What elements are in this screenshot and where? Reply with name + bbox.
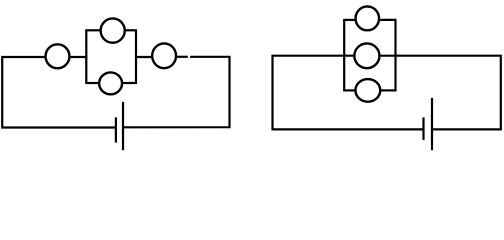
battery B1 positive plate (long) [122, 102, 124, 150]
battery B2 negative plate (short) [422, 117, 424, 139]
wire: lamp L5 through right rail to top-right corner, down right side, to battery B2 positive plate [381, 56, 501, 130]
wire: bottom branch, left rail to lamp L3 [85, 82, 98, 84]
battery B1 negative plate (short) [115, 117, 117, 142]
wire: parallel block right rail [394, 20, 396, 91]
lamp L6 (parallel top branch) [356, 6, 380, 30]
wire: parallel block right rail [135, 30, 137, 83]
lamp L3 (parallel bottom branch) [99, 72, 122, 94]
wire: right rail to lamp L4 [135, 56, 151, 58]
wire: bottom branch, lamp L7 to right rail [381, 89, 397, 91]
wire: battery B1 negative plate along bottom, up left side, to lamp L1 [2, 57, 115, 128]
lamp L1 (series lamp, left) [46, 44, 70, 68]
wire: lamp L1 to parallel-block left rail [71, 56, 88, 58]
lamp L5 (parallel middle branch, on top side) [354, 43, 379, 68]
wire: battery B2 negative plate along bottom, up left side, to lamp L5 [273, 56, 423, 130]
wire: top branch, lamp L2 to right rail [126, 29, 137, 31]
wire: bottom branch, left rail to lamp L7 [343, 89, 355, 91]
wire: parallel block left rail [85, 30, 87, 83]
battery B2 positive plate (long) [431, 98, 433, 150]
wire: bottom branch, lamp L3 to right rail [123, 82, 137, 84]
wire: top branch, left rail to lamp L6 [343, 19, 355, 21]
wire: parallel block left rail [343, 20, 345, 91]
lamp L2 (parallel top branch) [101, 18, 125, 42]
wire: top-right segment, down right side, along bottom to battery B1 positive plate [124, 57, 230, 128]
lamp L4 (series lamp, right) [152, 43, 176, 68]
wire: top branch, left rail to lamp L2 [85, 29, 100, 31]
wire: top branch, lamp L6 to right rail [380, 19, 396, 21]
wire: lamp L4 stub (short dash before gap) [177, 56, 188, 58]
lamp L7 (parallel bottom branch) [355, 79, 380, 102]
